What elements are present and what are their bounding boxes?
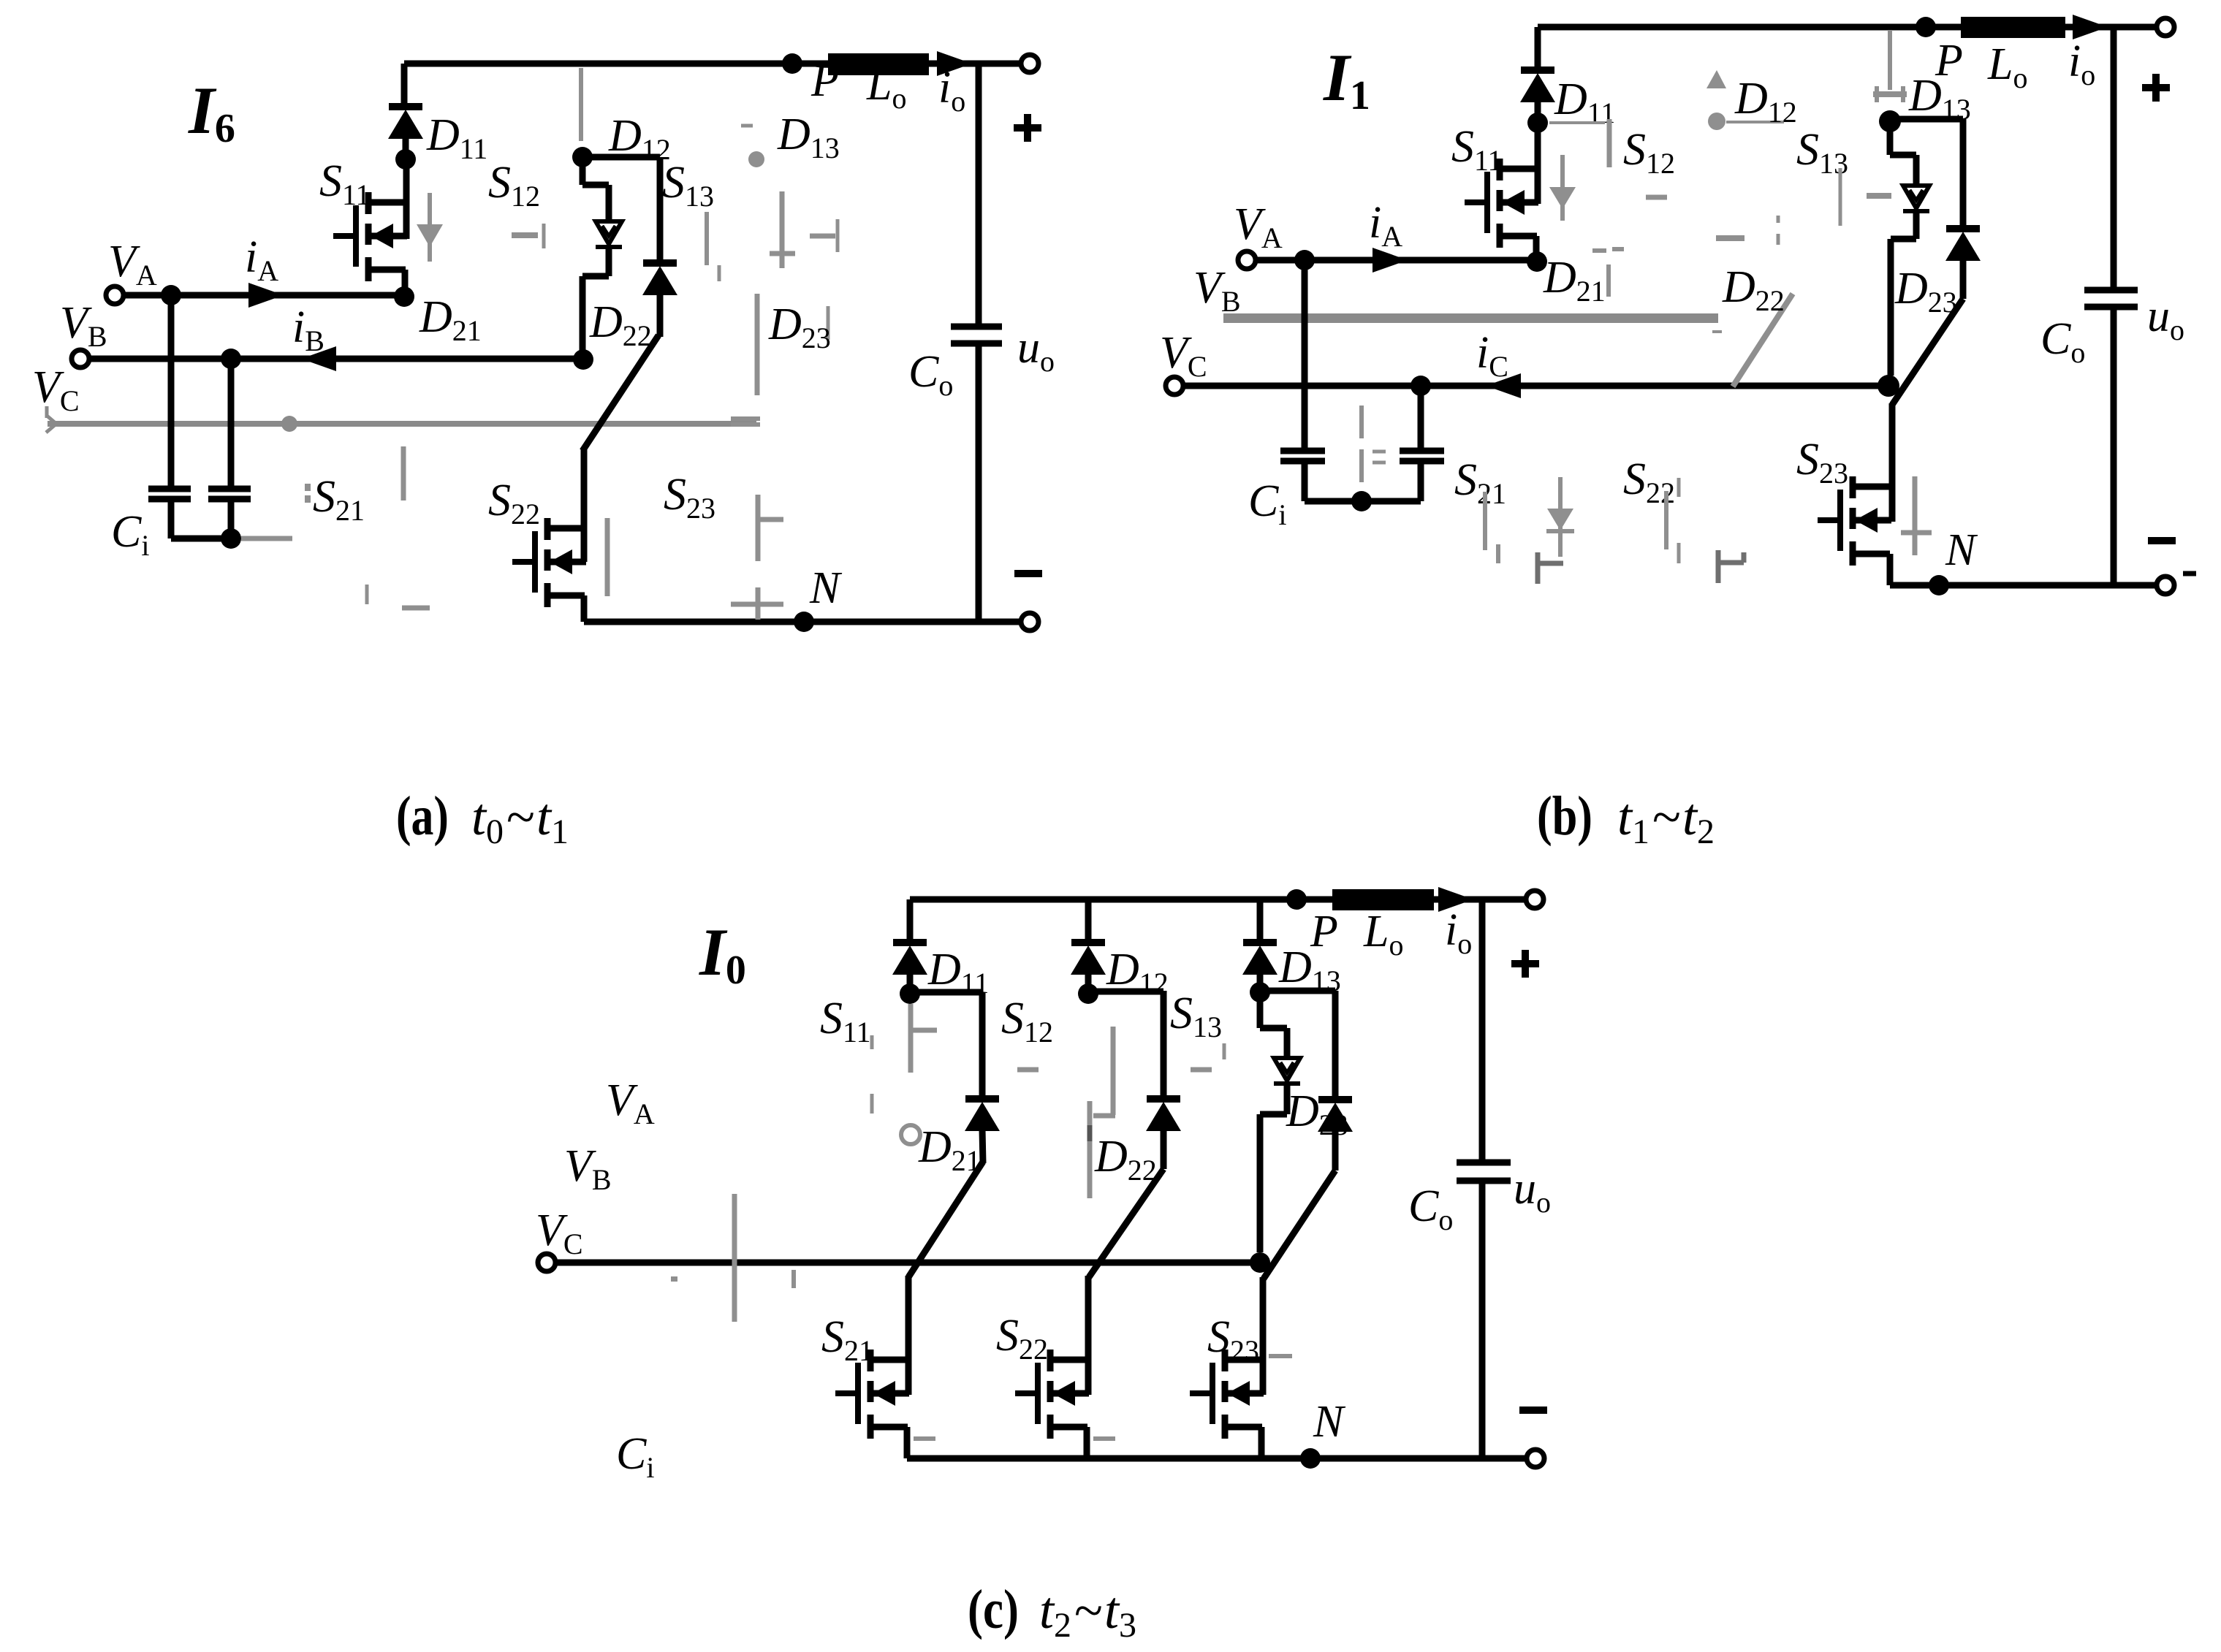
junction dot on VC wire (c) <box>1250 1252 1270 1273</box>
wire D11 to node (c) <box>907 972 914 994</box>
wire output right rail upper (b) <box>2111 27 2117 290</box>
minus sign (b) <box>2148 541 2196 574</box>
gray faded D23 remnant vertical (a) <box>757 294 828 395</box>
junction dot cap bottom (a) <box>221 528 241 549</box>
wire top rail (a) from D11 branch to output+ <box>404 61 1022 67</box>
wire S23 drain vertical (c) <box>1260 1277 1267 1395</box>
label D23 (b) <box>1894 264 1957 319</box>
label D23 (c) <box>1286 1086 1348 1141</box>
gray faded remnant right of S23 drain (c) <box>1269 1354 1292 1358</box>
transistor S23 (b) <box>1818 476 1891 566</box>
label D13 (c) <box>1278 943 1341 997</box>
gray faded S23 remnant T upper (a) <box>758 495 783 561</box>
label VC (a) <box>32 362 80 417</box>
svg-text:N: N <box>1945 525 1978 575</box>
wire S12 body-diode jog upper (a) <box>582 157 609 221</box>
current arrow iC (b) <box>1486 373 1521 398</box>
wire N rail (b) <box>1890 582 2157 589</box>
wire S13 body-diode jog lower (b) <box>1891 211 1916 376</box>
wire S11 drain vertical (b) <box>1535 123 1541 204</box>
wire below D22 (a) <box>657 294 664 337</box>
wire S13 body-diode jog lower (c) <box>1260 1084 1287 1252</box>
capacitor Ci plate A (b) <box>1280 451 1325 461</box>
gray dot on VC line (a) <box>281 416 297 432</box>
output - terminal (b) <box>2157 576 2174 594</box>
wire S21 source vertical (c) <box>904 1427 911 1458</box>
label S13 (b) <box>1796 125 1848 180</box>
gray faded S22 channel remnant (a) <box>605 518 610 596</box>
label VB (a) <box>60 298 107 353</box>
junction dot D21 node (b) <box>1527 251 1547 272</box>
wire cap bottom jumper (a) <box>171 536 231 542</box>
terminal VC (b) <box>1166 377 1183 395</box>
wire below cap C (b) <box>1418 463 1424 501</box>
label io (b) <box>2068 37 2095 91</box>
body diode of S12 (a) <box>596 221 622 247</box>
wire D11 to node (a) <box>403 137 409 159</box>
gray faded D13 cell remnant (a) <box>770 191 795 268</box>
inductor Lo (b) <box>1961 17 2065 38</box>
transistor S22 (a) <box>512 518 586 607</box>
gray faded S13 remnant (b) <box>1840 168 1891 226</box>
gray faded S21 remnant (a) <box>305 446 403 503</box>
wire below cap B (a) <box>228 502 235 538</box>
node P junction dot (c) <box>1286 889 1307 910</box>
diode D11 (a) <box>388 107 423 139</box>
label Co (c) <box>1408 1181 1453 1236</box>
gray faded remnant right of S23 (b) <box>1901 476 1932 555</box>
label S12 (a) <box>488 158 540 213</box>
junction dot D13 node (b) <box>1879 110 1901 132</box>
label N (c) <box>1313 1397 1346 1447</box>
diode D23 (b) <box>1945 229 1981 261</box>
label iA (a) <box>245 232 278 287</box>
label Lo (a) <box>866 60 906 115</box>
junction dot on VA wire (b) <box>1294 250 1315 270</box>
capacitor Co (b) <box>2084 290 2138 307</box>
label io (c) <box>1445 905 1472 960</box>
wire S22 source vertical (c) <box>1084 1427 1090 1458</box>
gray faded S12 remnant (b) <box>1646 197 1778 245</box>
label D11 (b) <box>1554 75 1615 129</box>
junction dot below D11 (b) <box>1527 113 1548 133</box>
capacitor Ci plate C (b) <box>1400 451 1444 461</box>
wire S11 source vertical (a) <box>402 270 409 295</box>
capacitor Ci plate B (a) <box>208 489 251 499</box>
transistor S23 (c) <box>1190 1350 1264 1439</box>
terminal VA (a) <box>106 286 124 304</box>
label D21 (b) <box>1543 253 1606 308</box>
svg-text:P: P <box>1310 907 1338 956</box>
wire S13 body-diode jog upper (c) <box>1260 992 1287 1058</box>
label N (a) <box>809 563 843 613</box>
junction dot below D13 (c) <box>1250 982 1270 1002</box>
label S23 (a) <box>664 470 715 525</box>
label iA (b) <box>1369 198 1402 253</box>
wire S11 drain vertical (a) <box>403 159 410 239</box>
svg-text:P: P <box>810 56 839 106</box>
transistor S11 (a) <box>333 192 407 281</box>
capacitor Ci plate A (a) <box>148 489 191 499</box>
label S11 (c) <box>820 994 871 1048</box>
wire iA (b) <box>1256 257 1537 264</box>
node N junction dot (a) <box>794 612 814 632</box>
label VC (b) <box>1160 328 1207 383</box>
wire output right rail lower (c) <box>1479 1181 1486 1458</box>
gray faded Ci remnant tall (c) <box>732 1194 737 1322</box>
wire below D22 (c) <box>1161 1130 1167 1169</box>
subfigure (b) label I1 <box>1323 40 1370 118</box>
wire D11 branch vertical (c) <box>907 899 914 943</box>
current arrow iB (a) <box>301 346 336 371</box>
label D23 (a) <box>768 300 831 354</box>
label S22 (b) <box>1623 454 1675 509</box>
body diode of S13 (c) <box>1274 1058 1300 1084</box>
label uo (b) <box>2147 292 2184 346</box>
label S12 (b) <box>1623 125 1675 180</box>
gray faded T remnant right (b) <box>1718 550 1744 583</box>
subfigure (a) label I6 <box>188 73 235 151</box>
wire slanted D23 to S23 (b) <box>1892 299 1963 405</box>
label VA (b) <box>1234 199 1283 254</box>
label S21 (a) <box>313 472 365 527</box>
gray faded S11 remnant (c) <box>872 1004 937 1114</box>
minus sign (a) <box>1014 570 1042 577</box>
junction dot on VC wire (b) <box>1411 376 1431 396</box>
label N (b) <box>1945 525 1978 575</box>
gray faded freewheel diode remnant (b) <box>1546 477 1574 557</box>
gray stub right of cap node (a) <box>241 536 292 541</box>
label D13 (a) <box>777 110 840 164</box>
label Ci (c) <box>616 1429 654 1484</box>
label P (b) <box>1935 36 1963 85</box>
gray faded S21 remnant (b) <box>1485 492 1498 563</box>
gray remnant right of D21 (b) <box>1592 249 1624 297</box>
wire slanted D22 to S22 (a) <box>582 335 658 451</box>
terminal VC (c) <box>538 1254 555 1271</box>
gray faded remnant below S22 (a) <box>367 585 430 608</box>
body diode of S13 (b) <box>1903 186 1929 211</box>
junction dot on VB wire (a) <box>221 349 241 369</box>
svg-text:N: N <box>809 563 843 613</box>
label S21 (b) <box>1454 455 1506 510</box>
node N junction dot (b) <box>1929 575 1949 595</box>
label Lo (b) <box>1987 39 2027 94</box>
current arrow iA (a) <box>248 283 284 308</box>
label D12 (b) <box>1734 74 1797 129</box>
minus sign (c) <box>1519 1407 1547 1414</box>
wire slanted D21 to S21 (c) <box>908 1162 983 1277</box>
caption (b) t1~t2 <box>1537 785 1715 851</box>
gray faded remnant dash right of S13 (a) <box>810 219 838 252</box>
label uo (a) <box>1017 323 1055 378</box>
label D22 (c) <box>1094 1132 1157 1187</box>
label D22 (b) <box>1722 262 1785 317</box>
label D12 (c) <box>1106 945 1169 1000</box>
wire D13 branch vertical (c) <box>1257 899 1264 943</box>
diode D21 (c) <box>965 1099 1000 1131</box>
wire S23 source vertical (c) <box>1258 1427 1265 1458</box>
svg-text:(b): (b) <box>1537 785 1592 847</box>
wire D13 node to D23 branch (b) <box>1890 119 1963 229</box>
junction dot below D12 (c) <box>1078 983 1098 1004</box>
wire output right rail lower (b) <box>2111 307 2117 585</box>
wire S22 drain vertical (a) <box>581 449 588 562</box>
wire D11 branch vertical top (b) <box>1535 27 1541 70</box>
wire N rail (c) <box>907 1455 1527 1462</box>
label Ci (a) <box>111 507 149 562</box>
output + terminal (b) <box>2157 18 2174 36</box>
wire S21 drain vertical (c) <box>906 1276 912 1395</box>
wire top rail (b) <box>1538 24 2157 31</box>
plus sign (b) <box>2142 74 2170 102</box>
wire VB cap branch (a) <box>228 359 235 486</box>
gray faded S13 remnant (c) <box>1191 1043 1224 1070</box>
wire slanted D23 to S23 (c) <box>1264 1171 1335 1279</box>
gray faded dash below S22 (c) <box>1093 1436 1115 1441</box>
wire VA cap branch (b) <box>1302 260 1308 449</box>
junction dot below D11 (c) <box>900 983 920 1004</box>
label S11 (b) <box>1451 122 1503 177</box>
gray faded S12 gate remnant (a) <box>512 224 544 248</box>
wire top rail (c) <box>910 897 1527 903</box>
current arrow io (b) <box>2073 15 2108 39</box>
wire output right rail upper (a) <box>976 64 982 327</box>
diode D13 (c) <box>1242 943 1277 975</box>
diode D12 (c) <box>1071 943 1106 975</box>
wire S22 source vertical (a) <box>581 595 588 622</box>
label S13 (a) <box>662 158 714 213</box>
transistor S21 (c) <box>835 1350 909 1439</box>
diode D11 (c) <box>892 943 927 975</box>
node N junction dot (c) <box>1300 1448 1321 1469</box>
gray faded Ci remnant short (c) <box>671 1270 794 1288</box>
svg-text:~: ~ <box>1652 788 1680 846</box>
junction dot iB end (a) <box>573 349 593 370</box>
current arrow iA (b) <box>1373 248 1408 273</box>
label S23 (c) <box>1207 1312 1259 1367</box>
wire S23 drain vertical (b) <box>1889 403 1896 522</box>
gray faded remnant dash pair (a) <box>731 419 760 425</box>
wire D11 to node (b) <box>1535 100 1541 123</box>
wire VA cap branch (a) <box>168 295 175 486</box>
wire slanted D22 to S22 (c) <box>1089 1169 1163 1277</box>
diode D23 (c) <box>1318 1100 1353 1132</box>
junction dot on VA wire (a) <box>161 285 181 305</box>
wire below D23 (b) <box>1960 259 1967 299</box>
label S22 (a) <box>488 476 540 530</box>
label VB (b) <box>1193 263 1241 318</box>
capacitor Co (a) <box>951 327 1002 343</box>
wire S12 body-diode jog lower (a) <box>582 247 609 359</box>
wire VC cap branch (b) <box>1418 386 1424 449</box>
subfigure (c) label I0 <box>699 915 746 993</box>
wire S13 body-diode jog upper (b) <box>1890 121 1916 186</box>
current arrow io (a) <box>937 51 972 76</box>
wire cap bottom jumper (b) <box>1305 498 1421 505</box>
gray faded VC line (a) <box>46 406 756 433</box>
gray faded S22 remnant (b) <box>1666 478 1679 563</box>
junction dot VC end (b) <box>1878 375 1899 397</box>
label iB (a) <box>292 302 324 357</box>
gray body-diode arrow of S11 (b) <box>1549 155 1576 221</box>
wire D11 branch vertical top (a) <box>401 64 408 107</box>
label iC (b) <box>1476 328 1508 383</box>
output - terminal (c) <box>1527 1450 1544 1467</box>
diode D11 (b) <box>1520 70 1555 102</box>
svg-text:(c): (c) <box>968 1579 1019 1640</box>
wire D12 to node (c) <box>1085 972 1092 994</box>
wire VC (c) <box>556 1260 1260 1266</box>
wire VC (b) <box>1183 383 1888 389</box>
inductor Lo (c) <box>1332 889 1434 910</box>
svg-text:~: ~ <box>506 788 534 846</box>
gray faded VB line (b) <box>1223 313 1722 332</box>
gray faded remnant between caps (b) <box>1362 406 1386 482</box>
label io (a) <box>938 63 965 118</box>
junction dot D12 node (a) <box>572 147 593 167</box>
label S22 (c) <box>996 1311 1048 1366</box>
output + terminal (a) <box>1021 55 1039 72</box>
terminal VB (a) <box>72 350 89 368</box>
transistor S22 (c) <box>1015 1350 1089 1439</box>
wire below D21 (c) <box>982 1130 983 1163</box>
gray faded T remnant left (b) <box>1538 552 1563 584</box>
label Co (a) <box>908 347 953 402</box>
svg-text:~: ~ <box>1074 1581 1102 1640</box>
diode D22 (a) <box>642 263 677 295</box>
terminal VA (b) <box>1238 251 1256 269</box>
plus sign (c) <box>1511 950 1539 978</box>
gray faded S23 remnant T lower (a) <box>731 587 783 620</box>
label Ci (b) <box>1248 476 1286 531</box>
wire below cap A (b) <box>1302 463 1308 501</box>
label S23 (b) <box>1796 435 1848 490</box>
gray faded D12 link to top rail (a) <box>579 68 583 141</box>
label P (a) <box>810 56 839 106</box>
gray faded S13 remnant vertical (a) <box>707 212 719 281</box>
label S12 (c) <box>1001 994 1053 1048</box>
wire below cap A (a) <box>168 502 175 538</box>
output + terminal (c) <box>1526 891 1544 908</box>
svg-text:(a): (a) <box>396 785 449 847</box>
label D21 (a) <box>419 292 482 347</box>
plus sign (a) <box>1014 114 1041 142</box>
diode D22 (c) <box>1146 1099 1181 1131</box>
capacitor Co (c) <box>1457 1162 1511 1181</box>
label D13 (b) <box>1908 71 1971 126</box>
wire D12 node to D21 branch (c) <box>910 992 982 1099</box>
gray faded S12 remnant (c) <box>1017 1027 1115 1198</box>
transistor S11 (b) <box>1465 159 1538 248</box>
label uo (c) <box>1514 1164 1551 1219</box>
inductor Lo (a) <box>828 53 929 75</box>
gray body-diode arrow of S11 (a) <box>417 193 443 262</box>
label S13 (c) <box>1170 989 1222 1043</box>
label D11 (a) <box>426 110 487 165</box>
wire N rail (a) <box>584 619 1022 625</box>
gray faded D22 slant (b) <box>1733 294 1793 387</box>
label Lo (c) <box>1363 907 1403 962</box>
gray faded D12 dot (b) <box>1708 113 1784 130</box>
label D22 (a) <box>589 297 652 352</box>
wire S11 source vertical (b) <box>1533 236 1540 260</box>
label VA (a) <box>108 237 157 292</box>
node P junction dot (b) <box>1916 17 1936 37</box>
wire output right rail upper (c) <box>1479 899 1486 1162</box>
junction dot D21 node (a) <box>394 286 414 307</box>
wire iB (a) <box>89 356 583 362</box>
svg-text:N: N <box>1313 1397 1346 1447</box>
caption (a) t0~t1 <box>396 785 569 851</box>
gray faded dash below S21 (c) <box>914 1436 935 1441</box>
wire output right rail lower (a) <box>976 343 982 622</box>
caption (c) t2~t3 <box>968 1579 1136 1645</box>
node P junction dot (a) <box>782 53 802 74</box>
gray faded circle near D21 (c) <box>901 1125 920 1144</box>
label VA (c) <box>606 1076 655 1130</box>
wire iA (a) <box>124 292 404 299</box>
label D21 (c) <box>918 1122 981 1177</box>
label D11 (c) <box>927 945 989 1000</box>
wire S23 source vertical (b) <box>1887 554 1894 585</box>
gray faded D12 triangle (b) <box>1706 70 1726 88</box>
wire D12 node to D22 branch (c) <box>1088 991 1163 1099</box>
wire D13 node to D23 branch (c) <box>1260 991 1335 1100</box>
label P (c) <box>1310 907 1338 956</box>
output - terminal (a) <box>1021 613 1039 631</box>
wire D12 branch vertical (c) <box>1085 899 1092 943</box>
label VB (c) <box>564 1141 612 1196</box>
gray faded D13 dot (a) <box>741 126 764 167</box>
label S11 (a) <box>319 156 371 211</box>
wire D12 node to D22 branch (a) <box>582 157 660 263</box>
junction dot below D11 (a) <box>395 149 416 170</box>
current arrow io (c) <box>1438 887 1473 912</box>
label Co (b) <box>2040 314 2085 369</box>
label VC (c) <box>536 1206 583 1260</box>
gray thin link and bar right of D11 node (b) <box>1549 119 1609 167</box>
junction dot cap bottom (b) <box>1351 491 1372 511</box>
wire D13 to node (c) <box>1257 972 1264 992</box>
label D12 (a) <box>608 111 671 166</box>
wire S22 drain vertical (c) <box>1085 1276 1092 1395</box>
label S21 (c) <box>821 1312 873 1367</box>
gray faded D13 remnant (b) <box>1873 30 1907 102</box>
wire below D23 (c) <box>1332 1130 1339 1171</box>
